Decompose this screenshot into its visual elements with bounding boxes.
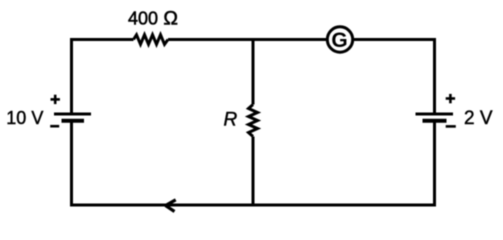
svg-text:10 V: 10 V xyxy=(6,108,43,128)
svg-text:G: G xyxy=(331,29,347,52)
svg-text:2 V: 2 V xyxy=(464,108,493,129)
svg-text:Ω: Ω xyxy=(163,8,178,30)
svg-text:400: 400 xyxy=(128,9,158,29)
svg-text:R: R xyxy=(224,110,238,131)
